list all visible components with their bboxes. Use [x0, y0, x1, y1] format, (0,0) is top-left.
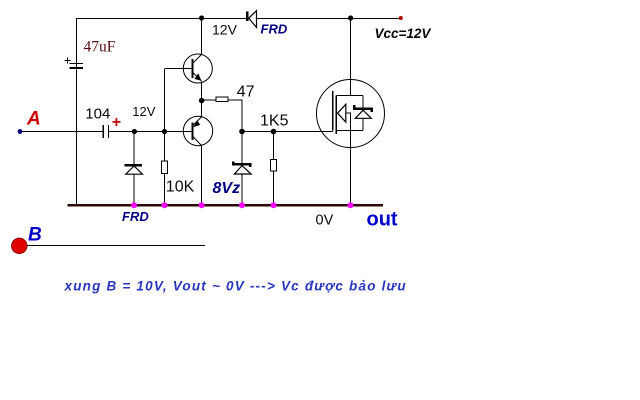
- node bus dot 1K5: [271, 202, 277, 208]
- svg-text:xung B = 10V, Vout ~ 0V ---> V: xung B = 10V, Vout ~ 0V ---> Vc được bảo…: [64, 279, 407, 294]
- svg-text:10K: 10K: [166, 179, 195, 196]
- node junction dot A-line at FRD branch: [132, 129, 137, 134]
- node B terminal red circle: [12, 238, 27, 253]
- wire zener branch vertical top: [241, 132, 243, 165]
- MOSFET Q3 drain tap bar: [336, 94, 363, 96]
- node Vcc terminal red dot: [399, 16, 403, 20]
- MOSFET Q3 gate bar: [332, 91, 334, 131]
- wire MOSFET drain vertical: [350, 18, 352, 95]
- node junction dot A-line at 10K and Q1 base branch: [162, 129, 167, 134]
- svg-text:47: 47: [237, 84, 255, 101]
- MOSFET Q3 source arrow: [338, 104, 351, 130]
- svg-text:A: A: [26, 109, 41, 130]
- MOSFET Q3 body diode (zener style): [354, 95, 372, 130]
- wire 10K branch vertical bottom: [164, 174, 166, 205]
- capacitor C2 104: [103, 125, 109, 138]
- svg-text:out: out: [367, 209, 398, 231]
- svg-text:Vcc=12V: Vcc=12V: [375, 26, 432, 41]
- wire input A horizontal: [20, 131, 192, 133]
- node bus dot FRD: [131, 202, 137, 208]
- node bus dot 10K: [162, 202, 168, 208]
- wire left branch vertical (Vcc to 47uF): [76, 18, 78, 63]
- node junction dot gate line at zener: [239, 129, 245, 135]
- label plus sign of 47uF: [64, 57, 70, 63]
- diode D2 FRD bottom: [125, 164, 143, 174]
- wire left branch vertical (47uF to out bus): [76, 70, 78, 206]
- wire Q1 base branch: [165, 69, 192, 132]
- svg-text:FRD: FRD: [122, 209, 149, 224]
- wire MOSFET source vertical to out bus: [350, 131, 352, 205]
- wire FRD bottom branch vertical bottom: [133, 174, 135, 205]
- svg-text:+: +: [112, 114, 121, 131]
- wire gate line horizontal: [242, 131, 333, 133]
- wire Q2 collector vertical to out bus: [201, 146, 203, 206]
- wire node B horizontal line: [27, 244, 205, 246]
- wire FRD bottom branch vertical top: [133, 132, 135, 165]
- node bus dot zener: [239, 202, 245, 208]
- capacitor C1 47uF: [70, 63, 84, 69]
- resistor R1 47: [216, 97, 228, 101]
- wire resistor 47 to corner and down to gate line: [228, 100, 242, 132]
- node junction dot emitter mid node: [199, 98, 205, 104]
- resistor R2 10K: [162, 161, 168, 174]
- wire out bus (0V rail): [68, 204, 383, 207]
- node junction dot top rail at Q1 collector: [199, 15, 204, 20]
- wire Q2 emitter vertical to mid node: [201, 101, 203, 118]
- svg-text:B: B: [28, 225, 42, 246]
- MOSFET Q3 body circle: [317, 80, 385, 148]
- svg-text:8Vz: 8Vz: [213, 180, 241, 197]
- svg-text:12V: 12V: [132, 104, 155, 119]
- wire Q1 emitter vertical to mid node: [201, 82, 203, 101]
- resistor R3 1K5: [271, 160, 277, 172]
- diode D3 zener 8Vz: [233, 162, 251, 174]
- node bus dot MOSFET source: [348, 202, 354, 208]
- svg-text:47uF: 47uF: [84, 39, 116, 56]
- diode D1 FRD top: [246, 11, 257, 28]
- node bus dot Q2 collector: [199, 202, 205, 208]
- transistor Q2 PNP: [183, 116, 212, 145]
- svg-text:FRD: FRD: [261, 22, 288, 37]
- svg-text:0V: 0V: [316, 213, 334, 229]
- wire Q1 collector vertical: [201, 18, 203, 55]
- MOSFET Q3 source tap bar: [336, 130, 363, 132]
- svg-text:104: 104: [85, 106, 110, 123]
- wire 1K5 branch vertical top: [273, 132, 275, 160]
- transistor Q1 NPN: [183, 54, 212, 83]
- svg-text:1K5: 1K5: [260, 113, 289, 130]
- node junction dot top rail at MOSFET drain: [348, 15, 353, 20]
- wire 1K5 branch vertical bottom: [273, 171, 275, 205]
- MOSFET Q3 channel bar: [335, 95, 337, 134]
- svg-text:12V: 12V: [212, 22, 238, 38]
- wire zener branch vertical bottom: [241, 174, 243, 205]
- node junction dot gate line at 1K5: [271, 129, 277, 135]
- node A terminal blue dot: [18, 129, 23, 134]
- wire top rail Vcc: [76, 18, 401, 20]
- wire mid node to resistor 47: [202, 99, 216, 101]
- wire 10K branch vertical top: [164, 132, 166, 162]
